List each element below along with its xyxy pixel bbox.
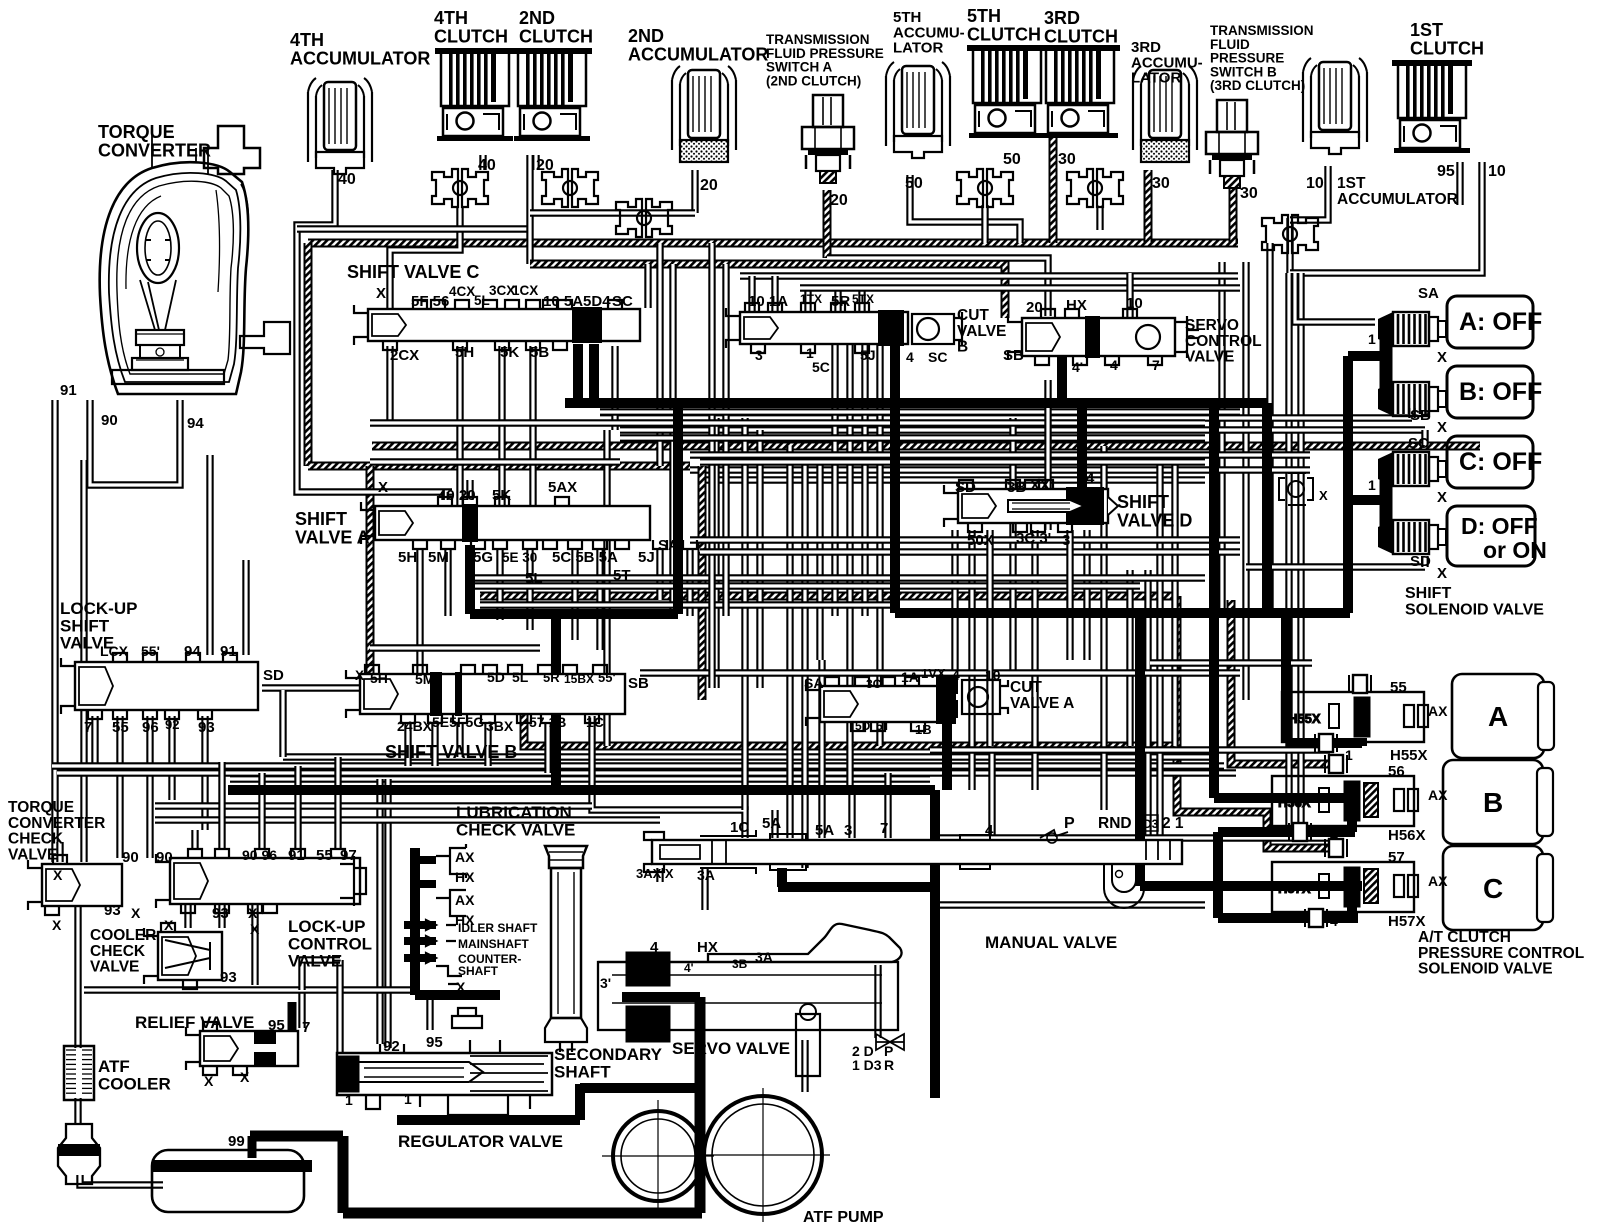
svg-text:X: X (456, 979, 466, 995)
svg-text:2 1: 2 1 (1162, 815, 1184, 832)
svg-text:20: 20 (1026, 299, 1043, 316)
svg-text:97: 97 (340, 847, 357, 864)
svg-text:CONTROL: CONTROL (1185, 333, 1262, 350)
shift valve D spool (1008, 500, 1084, 512)
svg-text:55: 55 (316, 847, 333, 864)
wire line 57 (930, 834, 1330, 841)
wire thick manual valve line 1 (778, 882, 935, 892)
svg-text:CHECK: CHECK (8, 831, 64, 848)
wire port 7 drop (91, 716, 98, 766)
wire hatched box bottom edge (308, 462, 690, 471)
check valve fitting 20 (542, 169, 598, 207)
check valve fitting 50 (957, 169, 1013, 207)
svg-text:REGULATOR VALVE: REGULATOR VALVE (398, 1132, 563, 1151)
wire 5T drop (686, 548, 693, 616)
svg-text:SHAFT: SHAFT (554, 1062, 611, 1081)
wire mesh v4 (741, 418, 748, 810)
wire cut B stub 5R (834, 288, 841, 312)
svg-text:CUT: CUT (957, 307, 989, 324)
check valve fitting 40 (432, 169, 488, 207)
wire thick servo control drop (1057, 340, 1067, 403)
svg-text:HX: HX (697, 939, 718, 956)
wire right bundle v3 (1266, 243, 1273, 616)
svg-text:CLUTCH: CLUTCH (967, 24, 1041, 44)
svg-text:5M: 5M (415, 671, 434, 687)
wire 5C drop (571, 548, 578, 640)
wire LCV X stub (184, 905, 191, 928)
svg-text:91: 91 (220, 643, 237, 660)
svg-text:24BX: 24BX (397, 718, 433, 734)
3rd clutch (1040, 45, 1120, 138)
svg-text:TORQUE: TORQUE (98, 122, 175, 142)
servo control valve (1008, 309, 1175, 365)
wire mesh v12 (876, 345, 883, 746)
wire right bundle v1 (1218, 262, 1225, 616)
svg-text:D: OFF: D: OFF (1461, 513, 1538, 539)
svg-text:TRANSMISSION: TRANSMISSION (766, 32, 870, 47)
svg-text:LCX: LCX (100, 643, 129, 659)
wire 1C to manual valve (592, 716, 745, 838)
svg-text:SHIFT: SHIFT (295, 509, 347, 529)
wire regulator 92 line (384, 779, 391, 1048)
svg-text:5TX: 5TX (852, 292, 874, 306)
wire 3A stub down (701, 868, 708, 910)
wire mid line k (470, 574, 1205, 581)
svg-text:4TH: 4TH (290, 30, 324, 50)
svg-text:7: 7 (302, 1019, 310, 1036)
wire mesh v10 (846, 345, 853, 790)
relief valve black block a (254, 1030, 276, 1044)
wire bus drop b (722, 264, 729, 616)
svg-text:SHAFT: SHAFT (458, 964, 499, 978)
svg-text:CUT: CUT (1010, 679, 1042, 696)
wire bus drop d (669, 264, 676, 616)
lube stub 1 (415, 856, 436, 864)
wire 5E drop (526, 548, 533, 630)
wire hatched line to fitting 56 (1231, 600, 1336, 764)
svg-text:15BX: 15BX (564, 672, 594, 686)
svg-text:3': 3' (600, 975, 611, 991)
wire thick drop to solenoid C (1135, 613, 1145, 886)
svg-text:4: 4 (906, 349, 914, 365)
svg-text:4: 4 (1110, 357, 1118, 373)
svg-text:4: 4 (1086, 470, 1095, 487)
wire 5B drop (529, 346, 536, 505)
wire mid line n (370, 644, 540, 651)
svg-text:LUBRICATION: LUBRICATION (456, 803, 572, 822)
svg-text:X: X (52, 917, 62, 933)
wire hatched box left edge (304, 243, 313, 466)
svg-text:1A: 1A (901, 669, 919, 685)
wire long low line d (230, 775, 930, 782)
svg-text:VALVE: VALVE (957, 323, 1006, 340)
wire mesh v19 (1126, 570, 1133, 746)
svg-text:10: 10 (1306, 175, 1324, 192)
wire LCV 97 stub (334, 757, 341, 848)
svg-text:2ND: 2ND (519, 8, 555, 28)
wire port 96 drop (146, 716, 153, 858)
wire thick manual valve stub (777, 868, 787, 887)
wire regulator left feed (336, 960, 343, 1053)
wire 4th clutch line 40 (390, 206, 460, 308)
svg-text:7: 7 (1152, 357, 1160, 373)
svg-text:SA: SA (1418, 285, 1439, 302)
wire mesh v22 (1171, 455, 1178, 746)
fitting 57 (1325, 839, 1347, 857)
svg-text:5A: 5A (762, 815, 781, 832)
shift solenoid A coil (1378, 312, 1446, 346)
manual valve (644, 830, 1182, 908)
cooler check valve spring (165, 940, 210, 970)
svg-text:5E5F5G: 5E5F5G (432, 714, 484, 730)
svg-text:LATOR: LATOR (893, 40, 943, 57)
svg-text:SECONDARY: SECONDARY (554, 1045, 663, 1064)
relief valve (186, 1022, 298, 1075)
svg-text:1ST: 1ST (1337, 175, 1366, 192)
svg-text:ACCUMULATOR: ACCUMULATOR (628, 44, 768, 64)
cut valve A fitting (936, 676, 958, 694)
wire thick drop to long line (551, 614, 561, 790)
5th accumulator (886, 62, 950, 158)
cooler check valve (144, 923, 222, 989)
shift solenoid D coil (1378, 520, 1446, 554)
shift solenoid B coil (1378, 382, 1446, 416)
wire SVB stub 5F (456, 723, 463, 757)
wire left line 91 (51, 400, 58, 862)
svg-text:5M: 5M (428, 549, 449, 566)
svg-text:CLUTCH: CLUTCH (1410, 38, 1484, 58)
shift solenoid D state box (1447, 506, 1547, 566)
svg-text:SB: SB (1003, 347, 1024, 364)
svg-text:(2ND CLUTCH): (2ND CLUTCH) (766, 73, 861, 88)
svg-text:93: 93 (104, 902, 121, 919)
wire mesh v16 (1031, 530, 1038, 790)
check valve fitting 30 (1067, 169, 1123, 207)
wire long mid line a (690, 466, 1310, 473)
svg-text:2CX: 2CX (390, 347, 419, 364)
wire servo to pump (801, 1040, 808, 1092)
svg-text:HX: HX (455, 869, 475, 885)
lube stub 5 (404, 954, 436, 962)
wire 5B lower drop (596, 548, 603, 650)
svg-text:40 20: 40 20 (438, 487, 476, 504)
wire switch B hatched drop (1229, 185, 1238, 243)
svg-text:CHECK VALVE: CHECK VALVE (456, 820, 575, 839)
svg-text:VALVE: VALVE (1185, 349, 1234, 366)
svg-text:90 96: 90 96 (242, 847, 277, 863)
wire 4th clutch stub (479, 155, 486, 170)
cut valve B spool (726, 303, 908, 353)
wire thick A bar drop (1357, 738, 1367, 746)
A/T clutch pressure control solenoid B (1272, 776, 1418, 826)
wire LCV 55 stub (294, 766, 301, 848)
shift solenoid C coil (1378, 452, 1446, 486)
svg-text:94: 94 (184, 643, 201, 660)
cut valve B (912, 312, 962, 346)
svg-text:SHIFT: SHIFT (1117, 492, 1169, 512)
wire line 94 (206, 455, 213, 655)
svg-text:MAINSHAFT: MAINSHAFT (458, 937, 529, 951)
svg-text:SHIFT: SHIFT (60, 616, 110, 635)
ATF pump driven gear (613, 1111, 703, 1201)
4th accumulator (308, 78, 372, 174)
wire 1st accumulator line 10 (1290, 166, 1328, 220)
wire cut B stub 1TX (804, 288, 811, 312)
svg-text:MANUAL VALVE: MANUAL VALVE (985, 933, 1117, 952)
ATF cooler relief funnel (58, 1124, 100, 1184)
svg-text:50X: 50X (967, 532, 994, 549)
regulator valve (337, 1008, 552, 1115)
wire long stippled line 1X (372, 442, 1480, 451)
svg-text:ACCUMULATOR: ACCUMULATOR (1337, 191, 1458, 208)
svg-text:7: 7 (880, 820, 888, 837)
svg-text:4: 4 (985, 822, 994, 839)
svg-text:CLUTCH: CLUTCH (519, 26, 593, 46)
lower fitting A (1315, 734, 1337, 752)
wire thick main line 4 (565, 398, 1268, 408)
lock-up control valve (156, 849, 360, 913)
svg-text:5C 5B 5A: 5C 5B 5A (552, 549, 618, 566)
svg-text:99: 99 (228, 1133, 245, 1150)
svg-text:H57X: H57X (1388, 913, 1426, 930)
wire mid line j (370, 458, 620, 465)
wire SVB stub 3BX (484, 723, 491, 766)
wire mesh v1 (603, 430, 610, 746)
wire thick solenoid A bottom (1286, 738, 1362, 748)
wire top connect line (297, 225, 528, 232)
wire thick main line X (895, 608, 1350, 618)
lubrication check valve trunk (410, 848, 420, 995)
svg-text:FLUID PRESSURE: FLUID PRESSURE (766, 46, 884, 61)
wire to ATF cooler (74, 905, 81, 1048)
svg-text:LOCK-UP: LOCK-UP (60, 599, 137, 618)
wire 1st clutch stub 95 (1456, 162, 1463, 205)
wire 5th accumulator line 50 (910, 175, 1020, 243)
wire mesh v3 (712, 418, 719, 688)
3rd accumulator (1133, 66, 1197, 162)
cut valve A (806, 677, 956, 731)
wire switch A line to servo control valve (827, 258, 1048, 316)
wire line 56 (930, 746, 1330, 753)
wire thick bottom run (343, 1208, 702, 1219)
svg-text:CONVERTER: CONVERTER (98, 140, 211, 160)
svg-text:ATF: ATF (98, 1057, 130, 1076)
wire thick solenoid B bottom (1218, 827, 1355, 837)
svg-text:30: 30 (1240, 185, 1258, 202)
svg-text:1C: 1C (730, 819, 749, 836)
svg-text:VALVE A: VALVE A (1010, 695, 1074, 712)
wire drop to shift valve C port 10 (644, 264, 651, 308)
wire 5H drop (456, 346, 463, 505)
svg-text:X: X (248, 905, 258, 921)
wire thick solenoid A-B bar (1380, 338, 1393, 390)
svg-text:FLUID: FLUID (1210, 37, 1250, 52)
wire 2nd clutch stub (532, 155, 539, 170)
svg-text:1: 1 (345, 1092, 353, 1108)
svg-text:B: B (957, 339, 968, 356)
wire hatched line 5X (480, 592, 1177, 601)
lower fitting C (1305, 909, 1327, 927)
lower fitting B (1289, 823, 1311, 841)
svg-text:10 1A: 10 1A (748, 293, 788, 310)
svg-text:93: 93 (220, 969, 237, 986)
wire LCV 96 stub (218, 762, 225, 848)
wire mesh v17 (1083, 530, 1090, 660)
lock-up control valve spring (340, 856, 366, 906)
svg-text:10: 10 (1126, 295, 1143, 312)
lock-up shift valve (61, 653, 258, 719)
wire 1st accumulator branch (1286, 218, 1293, 273)
shift solenoid C state box (1447, 436, 1542, 488)
svg-text:5R: 5R (543, 670, 560, 685)
svg-text:HX: HX (1066, 297, 1087, 314)
svg-text:A/T CLUTCH: A/T CLUTCH (1418, 929, 1511, 946)
2nd clutch (512, 48, 592, 141)
wire thick to solenoid B top (1214, 793, 1360, 803)
lube bottom stub (415, 990, 500, 1000)
svg-text:50: 50 (1003, 151, 1021, 168)
wire thick shift valve C 5D drop (573, 344, 583, 402)
torque converter (100, 126, 290, 394)
svg-text:SB: SB (628, 675, 649, 692)
wire mid line f (690, 451, 1310, 458)
svg-text:SOLENOID VALVE: SOLENOID VALVE (1405, 601, 1544, 618)
svg-text:SC: SC (1408, 435, 1429, 452)
funnel black band (58, 1144, 100, 1156)
svg-text:5H: 5H (370, 670, 388, 686)
svg-text:4TH: 4TH (434, 8, 468, 28)
wire port 92 drop (168, 716, 175, 800)
svg-text:20: 20 (700, 177, 718, 194)
svg-text:55: 55 (1390, 679, 1407, 696)
wire mesh v6 (786, 446, 793, 838)
wire servo stem (874, 965, 881, 1038)
svg-text:RND: RND (1098, 815, 1132, 832)
svg-text:TRANSMISSION: TRANSMISSION (1210, 23, 1314, 38)
wire thick solenoid B-C link (1213, 832, 1223, 918)
wire mesh hatched v2 (698, 466, 707, 700)
svg-text:TORQUE: TORQUE (8, 799, 74, 816)
wire SVB stub 5E (431, 723, 438, 766)
shift solenoid B state box (1447, 366, 1542, 418)
svg-text:1TX: 1TX (800, 292, 822, 306)
wire thick branch down (673, 403, 683, 614)
wire hatched main line bus (308, 239, 1238, 248)
wire 2nd accumulator drop (691, 170, 698, 213)
wire regulator 95 line (426, 995, 433, 1030)
svg-text:5T: 5T (613, 567, 631, 584)
svg-text:H56X: H56X (1388, 827, 1426, 844)
svg-text:H55X: H55X (1288, 711, 1321, 726)
wire thick regulator bottom (397, 1115, 580, 1125)
svg-text:20: 20 (536, 157, 554, 174)
wire low line f (155, 816, 660, 823)
wire thick strainer left (338, 1136, 349, 1213)
relief valve black block b (254, 1052, 276, 1066)
wire thick right column B (1209, 403, 1219, 798)
svg-text:91: 91 (288, 847, 305, 864)
wire 1st clutch line 10 (1290, 162, 1482, 273)
svg-text:AX: AX (455, 849, 475, 865)
svg-text:X: X (164, 917, 174, 933)
svg-text:LATOR: LATOR (1131, 70, 1181, 87)
wire 5A stub up 2 (818, 660, 825, 838)
svg-text:LOCK-UP: LOCK-UP (288, 917, 365, 936)
wire thick stub solenoid A (1348, 351, 1383, 361)
svg-text:1: 1 (932, 871, 940, 888)
svg-text:COOLER: COOLER (90, 927, 156, 944)
svg-text:X: X (376, 285, 386, 302)
wire mid line l (470, 582, 1140, 589)
svg-text:PRESSURE: PRESSURE (1210, 51, 1284, 66)
wire mesh v5 (756, 430, 763, 688)
wire mid line e (620, 434, 1205, 441)
svg-text:5L: 5L (512, 669, 529, 685)
wire right bundle v2 (1242, 262, 1249, 700)
wire LCV 90 stub (191, 830, 198, 848)
svg-text:X: X (131, 905, 141, 921)
servo valve (598, 924, 904, 1076)
svg-text:3A: 3A (755, 949, 773, 965)
fitting 56 (1325, 755, 1347, 773)
svg-text:5K: 5K (492, 487, 511, 504)
svg-text:SHIFT VALVE B: SHIFT VALVE B (385, 742, 517, 762)
svg-text:5C: 5C (812, 359, 830, 375)
svg-text:SERVO: SERVO (1185, 317, 1239, 334)
wire thick shift valve D feed (1077, 403, 1087, 490)
svg-text:CHECK: CHECK (90, 943, 146, 960)
svg-text:3: 3 (844, 822, 852, 839)
svg-text:X: X (1437, 349, 1447, 366)
svg-text:1: 1 (1368, 477, 1376, 493)
svg-text:40: 40 (338, 171, 356, 188)
svg-text:X: X (355, 668, 364, 683)
svg-text:91: 91 (60, 382, 77, 399)
wire line 91 to lock-up shift valve (242, 560, 249, 655)
wire thick strainer top (250, 1131, 343, 1142)
wire thick link (470, 609, 678, 619)
lube stub 4 (404, 937, 436, 945)
wire 5th clutch drop 50 (981, 205, 988, 243)
svg-text:3C: 3C (866, 677, 882, 691)
svg-text:30: 30 (1058, 151, 1076, 168)
svg-text:X: X (1319, 488, 1328, 503)
svg-text:SWITCH B: SWITCH B (1210, 64, 1277, 79)
svg-text:1: 1 (1368, 331, 1376, 347)
lube stub 3 (404, 921, 436, 929)
svg-text:AX: AX (1428, 703, 1448, 719)
wire torque converter line 90 (90, 400, 180, 485)
svg-text:5B: 5B (530, 344, 549, 361)
wire long mid line b (700, 476, 1205, 483)
svg-text:3AX X: 3AX X (636, 866, 674, 881)
svg-text:4CX: 4CX (449, 284, 475, 299)
wire line 20 to servo control valve (530, 264, 1005, 318)
strainer internal band (152, 1160, 312, 1172)
svg-text:VALVE D: VALVE D (1117, 510, 1192, 530)
svg-text:96: 96 (142, 719, 159, 736)
5th clutch (967, 45, 1047, 138)
svg-text:92: 92 (165, 717, 179, 732)
svg-text:X: X (204, 1073, 214, 1089)
svg-text:55': 55' (141, 643, 160, 659)
svg-text:R: R (884, 1057, 894, 1073)
wire 4th accumulator line 40 (297, 170, 452, 492)
gear D3 box (1140, 815, 1158, 831)
shift valve A (361, 497, 697, 549)
svg-text:X: X (1437, 419, 1447, 436)
svg-text:3C 3': 3C 3' (1016, 530, 1051, 547)
